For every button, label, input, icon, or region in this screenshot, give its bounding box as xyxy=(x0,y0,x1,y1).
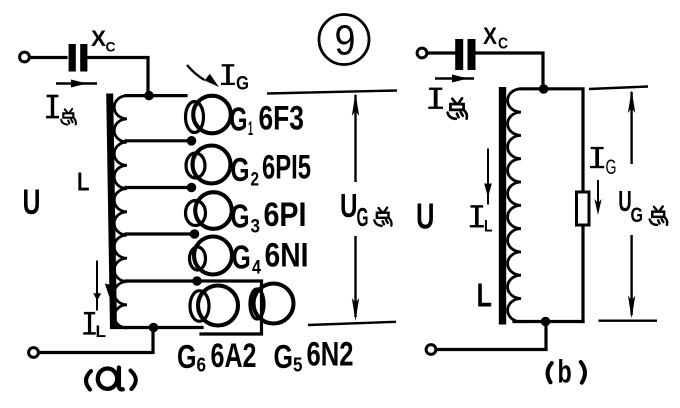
svg-text:G: G xyxy=(232,239,251,276)
svg-text:G: G xyxy=(631,204,644,227)
svg-text:G: G xyxy=(231,151,250,188)
svg-text:G: G xyxy=(357,202,369,232)
svg-text:6N2: 6N2 xyxy=(307,336,354,374)
svg-text:C: C xyxy=(498,36,508,53)
svg-text:G: G xyxy=(606,156,617,179)
svg-text:6A2: 6A2 xyxy=(211,337,257,375)
svg-text:L: L xyxy=(477,277,493,314)
svg-text:X: X xyxy=(483,23,497,50)
svg-text:G: G xyxy=(236,74,249,95)
svg-text:2: 2 xyxy=(251,170,260,191)
svg-text:1: 1 xyxy=(248,119,253,140)
svg-text:U: U xyxy=(416,196,435,237)
svg-text:9: 9 xyxy=(335,18,356,65)
svg-text:6PI: 6PI xyxy=(264,196,307,234)
svg-text:G: G xyxy=(230,101,248,138)
svg-text:L: L xyxy=(96,322,107,341)
svg-text:6PI5: 6PI5 xyxy=(262,149,311,187)
svg-text:X: X xyxy=(91,26,106,51)
svg-text:3: 3 xyxy=(251,217,261,238)
svg-text:6NI: 6NI xyxy=(265,237,309,275)
svg-text:b: b xyxy=(558,354,572,390)
svg-text:G: G xyxy=(274,338,294,375)
svg-text:4: 4 xyxy=(252,258,261,279)
svg-text:5: 5 xyxy=(293,355,303,377)
svg-text:G: G xyxy=(231,198,250,235)
svg-text:L: L xyxy=(77,167,90,197)
svg-text:6: 6 xyxy=(197,355,207,377)
svg-text:L: L xyxy=(484,217,493,236)
svg-text:U: U xyxy=(23,182,41,222)
svg-text:6F3: 6F3 xyxy=(259,100,305,138)
svg-text:G: G xyxy=(177,338,197,375)
svg-text:C: C xyxy=(106,39,116,55)
svg-text:U: U xyxy=(340,187,358,224)
